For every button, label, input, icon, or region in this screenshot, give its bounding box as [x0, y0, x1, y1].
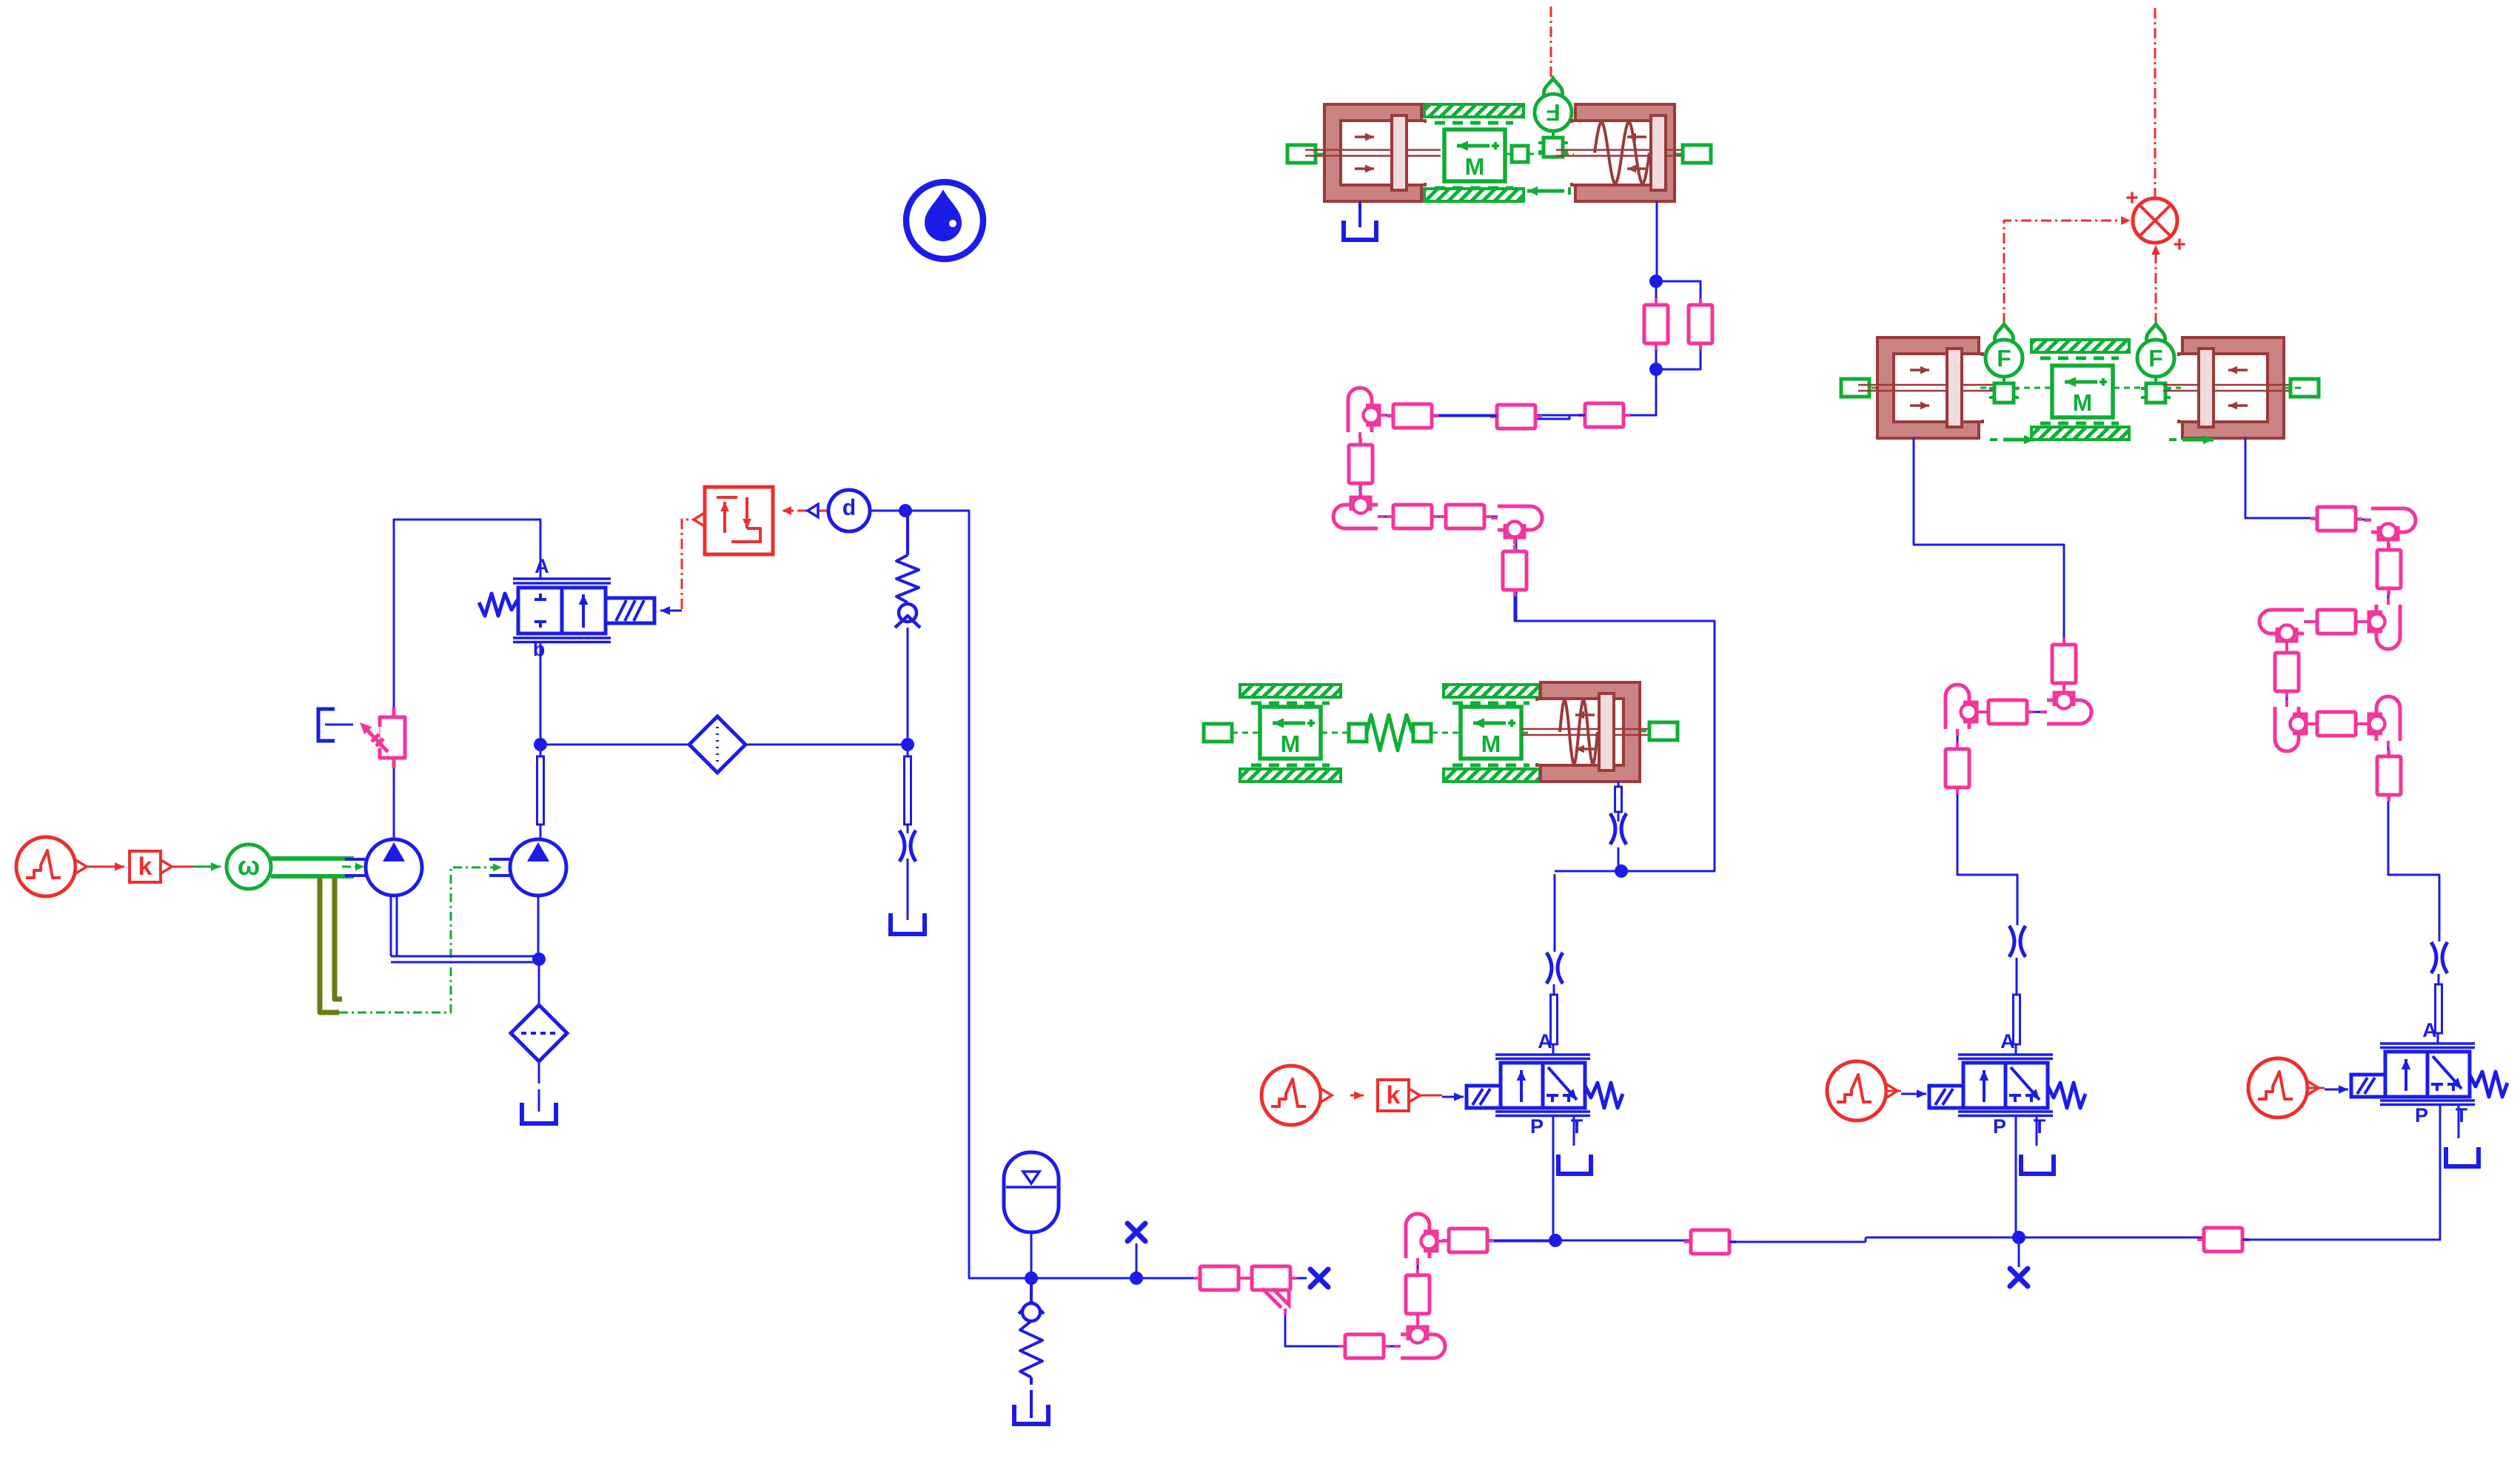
gain block k2	[1378, 1080, 1420, 1111]
small square joint M1-F1	[1512, 146, 1528, 162]
svg-text:q: q	[533, 641, 546, 663]
wire N11 down to hose row	[1643, 369, 1656, 415]
bus wire N7 to N8	[1555, 1240, 1691, 1242]
red summer SUM1	[2125, 186, 2186, 257]
node N2	[534, 738, 547, 751]
wire O0 to tank T1	[907, 859, 909, 920]
red dash-dot F2 to SUM1	[2004, 216, 2131, 323]
orifice O4	[1610, 813, 1626, 844]
green stub left ACT3	[1841, 379, 1869, 397]
gain block k1	[130, 851, 172, 882]
wire V3 T to tank T6	[2458, 1104, 2460, 1138]
node N1	[899, 504, 912, 517]
hose HB1 on bus	[1684, 1230, 1736, 1254]
svg-text:A: A	[535, 555, 549, 577]
pump P1	[345, 839, 422, 896]
elbow EE1	[2365, 508, 2416, 546]
red dash-dot p-sensor to R1	[782, 506, 828, 515]
hose HC4 vertical	[1349, 438, 1373, 490]
wire centerline chain E	[2287, 520, 2388, 804]
svg-text:P: P	[1530, 1115, 1544, 1138]
angled tee hose HT1	[1245, 1266, 1297, 1315]
green arrow under F1	[1527, 187, 1569, 196]
elbow ED1	[2040, 686, 2091, 724]
wire N1 right to long drop	[905, 511, 1025, 1278]
force sensor F2	[1985, 324, 2023, 403]
green arrow plus right	[2169, 435, 2214, 445]
bus wire HB1 to N8	[1729, 1237, 2019, 1242]
dash row ACT1 bottom	[1435, 187, 1513, 190]
svg-text:+: +	[2173, 232, 2186, 257]
hose HE6 vertical	[2377, 750, 2401, 802]
thin tube under N2	[537, 745, 544, 839]
wire ACT2 to orifice O4	[1615, 782, 1622, 822]
svg-text:T: T	[2034, 1115, 2046, 1138]
x plug under N8	[2010, 1237, 2028, 1286]
green shaft links ACT1	[1317, 153, 1682, 155]
wire centerline chain D	[1957, 645, 2064, 793]
hose HD1 vertical	[2052, 638, 2076, 690]
node N5	[1025, 1271, 1038, 1285]
wire pump P2 bottom	[537, 896, 540, 959]
hose HA2	[1338, 1334, 1390, 1358]
svg-text:ω: ω	[238, 850, 260, 881]
rotary speed source W1 (omega)	[227, 844, 271, 889]
tank T1	[891, 913, 925, 934]
svg-text:F: F	[1997, 345, 2011, 372]
accumulator ACC1	[1004, 1152, 1059, 1278]
elbow EE4	[2275, 700, 2313, 751]
dash row M3 top	[1452, 702, 1529, 705]
hose HC3	[1387, 404, 1438, 428]
wire k2 to V1	[1420, 1092, 1464, 1101]
svg-text:+: +	[2125, 186, 2139, 210]
elbow EA1	[1394, 1320, 1445, 1358]
wire HC7 to node N9	[1515, 597, 1715, 871]
orifice O3	[2431, 942, 2447, 973]
wire ACT3 right cyl down	[2245, 438, 2315, 518]
wire k1 to omega	[172, 862, 221, 871]
wire p1 node	[870, 510, 905, 512]
dash row M2 top	[1251, 702, 1330, 705]
force sensor F1 (rotated)	[1535, 78, 1572, 157]
dash row M3 bottom	[1452, 764, 1529, 767]
pilot-operated 2/2 valve V0	[479, 555, 654, 663]
olive mechanical shaft branch	[320, 878, 342, 1012]
node N11	[1649, 363, 1663, 376]
wire ACT1 right cyl to node N10	[1656, 201, 1658, 281]
green stub right ACT3	[2291, 379, 2319, 397]
wire HA4 to node N7	[1494, 1240, 1555, 1242]
svg-text:p: p	[842, 498, 856, 523]
green shaft links ACT2	[1232, 731, 1649, 733]
svg-text:F: F	[2148, 345, 2163, 372]
svg-text:T: T	[2456, 1104, 2468, 1126]
x plug right of tee	[1297, 1269, 1328, 1287]
wire centerline chain A	[1174, 1241, 1555, 1346]
cylinder ACT3 right (maroon)	[2163, 337, 2303, 438]
hose HE3	[2310, 610, 2362, 634]
cylinder ACT3 left (maroon)	[1858, 337, 1998, 438]
tank T2	[522, 1103, 556, 1123]
hose HA3 vertical	[1406, 1269, 1430, 1320]
wire V0 P down to filter line	[540, 641, 542, 745]
tank T6	[2446, 1147, 2479, 1166]
wire S2 to k2	[1350, 1091, 1364, 1100]
mass block M1	[1444, 130, 1505, 181]
signal source S3	[1827, 1061, 1897, 1121]
wire centerline chain C	[1360, 369, 1656, 621]
wire HC2-HC3	[1432, 415, 1497, 417]
node N10	[1649, 275, 1663, 288]
wire N4 to filter F2	[538, 959, 540, 1006]
elbow EC2	[1333, 491, 1384, 528]
green dash-dot control to pump P2	[339, 864, 502, 1012]
svg-text:F: F	[1546, 99, 1561, 126]
cylinder ACT2 (maroon, spring)	[1521, 682, 1659, 782]
wire pump P1 bottom to node N4	[391, 896, 535, 962]
node N8	[2012, 1231, 2025, 1244]
node N9	[1555, 864, 1628, 878]
hatch cup ACT3 bottom	[2031, 427, 2129, 440]
green shaft line omega to pump P1	[271, 859, 354, 876]
svg-text:M: M	[1281, 730, 1301, 757]
wire O2 up to chain	[1957, 793, 2017, 925]
svg-text:M: M	[1465, 153, 1485, 180]
node N3	[901, 738, 914, 751]
hatch cup M3 bottom	[1444, 769, 1540, 782]
valve V3 A riser	[2436, 974, 2442, 1044]
node N7	[1549, 1234, 1562, 1247]
fluid properties icon (drop)	[906, 182, 983, 259]
hatch plate ACT1 top	[1424, 104, 1524, 117]
wire filter line left	[540, 744, 689, 746]
hose HC2	[1490, 405, 1542, 429]
wire N5 to N6	[1031, 1277, 1136, 1280]
wire O4 to node N9	[1618, 847, 1620, 871]
green arrow plus left	[1990, 435, 2034, 445]
elbow EA2	[1406, 1214, 1444, 1265]
bus wire HB2 to valve V3 P	[2242, 1106, 2440, 1240]
wire tee branch down to HA2	[1285, 1315, 1342, 1346]
hose HD2	[1982, 700, 2034, 724]
dash row M2 bottom	[1251, 764, 1330, 767]
orifice O2	[2009, 926, 2025, 957]
hose HP1 vertical	[1644, 298, 1668, 350]
wire F2 to tank T2	[538, 1061, 540, 1112]
mass block M3	[1461, 707, 1521, 759]
cylinder ACT1 left (maroon)	[1305, 104, 1441, 201]
valve V1 A riser	[1551, 984, 1558, 1055]
elbow EC1	[1348, 388, 1386, 439]
valve V1 (3/2 proportional)	[1467, 1030, 1623, 1138]
wire O1 up to node N9	[1554, 874, 1556, 952]
hose HC1	[1578, 403, 1630, 427]
pressure sensor p1	[808, 490, 870, 531]
wire centerline hose pair	[1656, 281, 1700, 369]
dash row ACT3 bottom	[2040, 422, 2119, 426]
dash row ACT3 top	[2040, 357, 2119, 360]
svg-text:P: P	[2415, 1104, 2428, 1126]
tank T7 under ACT1 left	[1344, 201, 1376, 240]
wire N1 seat to N3	[907, 628, 909, 745]
wire ACT3 left cyl down	[1914, 438, 2064, 645]
hatch plate ACT3 top	[2031, 340, 2129, 352]
cylinder ACT1 right (maroon, spring)	[1556, 104, 1694, 201]
check valve CV2 with spring to tank T3	[1014, 1278, 1048, 1424]
hose HC5	[1387, 505, 1438, 528]
red dash-dot SUM1 up	[2154, 6, 2157, 198]
wire centerline bus hoses	[1691, 1237, 2243, 1242]
tank T4	[1558, 1155, 1591, 1174]
hose HA1	[1193, 1266, 1245, 1290]
hose HE1	[2310, 507, 2362, 531]
valve V2 (3/2 proportional)	[1929, 1030, 2085, 1138]
wire N6 to hose	[1136, 1277, 1174, 1280]
force sensor F3	[2137, 324, 2174, 403]
blue arrow into V0 solenoid	[660, 606, 682, 615]
hose HE4 vertical	[2275, 646, 2299, 698]
elbow EC3	[1491, 506, 1542, 544]
valve V3 (3/2 proportional)	[2351, 1019, 2507, 1126]
hose pair loop top	[1656, 281, 1700, 285]
wire pump P1 to valve V0 port A	[394, 520, 540, 839]
hatch cup ACT1 bottom	[1424, 189, 1524, 201]
hose HC7 vertical	[1503, 545, 1527, 597]
pump P2	[489, 839, 566, 896]
wire V2 P down to N8	[2015, 1115, 2017, 1237]
green stub left M2	[1204, 724, 1232, 742]
orifice O0	[899, 830, 916, 861]
pink displacement lever on P1	[360, 707, 405, 768]
valve V2 A riser	[2014, 958, 2020, 1055]
signal source S1 (red piecewise input)	[16, 837, 87, 896]
hatch cup M2 bottom	[1240, 769, 1341, 782]
spring K1 between masses	[1349, 715, 1431, 750]
red dash-dot F3 to SUM1	[2151, 245, 2160, 323]
mass block M4	[2052, 366, 2113, 417]
hose pair loop bottom	[1656, 363, 1700, 369]
elbow EE2	[2362, 598, 2400, 649]
wire filter line right	[745, 744, 908, 746]
hose HE5	[2310, 712, 2362, 736]
relief valve R1 (red box)	[705, 487, 773, 554]
elbow EE3	[2259, 610, 2310, 648]
svg-text:M: M	[1481, 730, 1501, 757]
svg-text:M: M	[2073, 389, 2093, 416]
hose HP2 vertical	[1689, 298, 1712, 350]
hose HA4	[1442, 1229, 1494, 1252]
bus wire N8 to HB2	[2019, 1237, 2203, 1239]
hose HD3 vertical	[1946, 742, 1969, 794]
svg-text:k: k	[138, 853, 153, 881]
elbow EE5	[2362, 696, 2400, 748]
filter F2 diamond	[511, 1005, 567, 1061]
elbow ED2	[1946, 685, 1983, 736]
wire S1 to k gain	[87, 862, 124, 871]
signal source S4	[2248, 1058, 2319, 1118]
node N4	[532, 953, 546, 966]
red dash-dot from F1 up	[1550, 6, 1552, 77]
hatch plate M3 top	[1444, 685, 1540, 697]
red dash-dot relief to V0	[682, 513, 705, 609]
filter F1 diamond	[689, 716, 745, 773]
hose HE2 vertical	[2377, 543, 2401, 595]
wire V2 T to tank T5	[2036, 1115, 2038, 1146]
svg-text:T: T	[1571, 1115, 1584, 1138]
wire S3 to V2	[1886, 1089, 1926, 1098]
pilot spring-check under node N1	[895, 511, 920, 628]
mass block M2	[1260, 707, 1321, 759]
x plug above line	[1127, 1223, 1145, 1278]
wire V1 T to tank T4	[1573, 1115, 1575, 1146]
thin tube under N3	[905, 745, 911, 833]
hose HC6	[1439, 505, 1491, 528]
svg-text:k: k	[1387, 1081, 1401, 1109]
wire O3 up to chain	[2388, 804, 2439, 941]
green stub left ACT1	[1287, 145, 1316, 163]
dash row ACT1 top	[1435, 121, 1513, 125]
green stub right ACT1	[1683, 145, 1711, 163]
node N6	[1130, 1271, 1143, 1285]
wire V1 P down to N7	[1552, 1115, 1555, 1240]
green dash-dot control to pump P1	[342, 863, 364, 871]
hose HB2 on bus	[2197, 1228, 2249, 1252]
wire jog HC1-HC2	[1535, 415, 1585, 419]
hatch plate M2 top	[1240, 685, 1341, 697]
tank T5	[2021, 1155, 2054, 1174]
svg-text:P: P	[1993, 1115, 2006, 1138]
orifice O1	[1546, 953, 1563, 984]
wire S4 to V3	[2308, 1085, 2348, 1094]
green stub right ACT2	[1649, 722, 1678, 740]
tank bracket of lever	[318, 709, 353, 741]
signal source S2	[1261, 1066, 1332, 1125]
green shaft links ACT3	[1871, 387, 2303, 389]
